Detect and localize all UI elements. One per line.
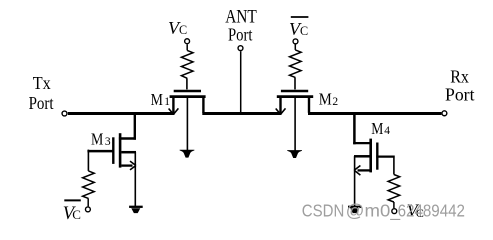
drain stub M3 (119, 137, 136, 139)
svg-text:Tx: Tx (33, 73, 51, 93)
wire M2 drain to Rx port (308, 112, 441, 115)
svg-text:C: C (300, 24, 308, 38)
label M4 (371, 119, 390, 138)
label M2 (319, 90, 339, 109)
label VC-bar (M2 gate bias, inverted control) (289, 17, 308, 39)
resistor (M2 gate bias) (290, 50, 302, 78)
wire resistor to VC terminal (393, 202, 395, 208)
svg-text:@m0: @m0 (346, 201, 391, 221)
wire M4 source to ground (354, 156, 356, 206)
label ANT Port (225, 6, 257, 44)
gate lead M3 (87, 150, 114, 153)
svg-text:CSDN: CSDN (302, 201, 345, 221)
drain leg M2 (308, 97, 310, 113)
source arrow M4 (354, 166, 360, 176)
resistor (M4 gate bias) (388, 175, 400, 203)
terminal VC-bar (bottom left) (85, 207, 90, 212)
body stub M3 (121, 151, 136, 154)
gate bar M1 (174, 90, 201, 93)
wire main line to M4 drain (353, 112, 356, 144)
svg-text:C: C (179, 23, 187, 37)
terminal VC (top left) (185, 39, 190, 44)
source stub M3 (121, 164, 132, 166)
svg-text:Port: Port (228, 25, 253, 45)
wire VC-bar terminal to resistor (294, 44, 296, 50)
svg-text:M: M (151, 90, 164, 109)
wire resistor to VC-bar terminal (87, 198, 89, 206)
body wire M2 (294, 98, 296, 151)
source stub M4 (358, 169, 371, 171)
transistor M2 (276, 91, 314, 151)
label VC (M4 gate bias) (407, 201, 424, 221)
transistor M1 (169, 91, 206, 150)
terminal Tx port (62, 111, 67, 116)
label VC-bar (M3 gate bias, inverted control) (63, 200, 81, 223)
source arrow M3 (130, 161, 136, 170)
svg-text:4: 4 (384, 125, 390, 137)
wire Tx port to M1 source (68, 112, 175, 115)
svg-text:Port: Port (29, 93, 54, 113)
drain stub M4 (353, 142, 371, 144)
resistor (M3 gate bias) (83, 171, 95, 199)
svg-text:2: 2 (332, 96, 338, 108)
ground (M3 source) (129, 207, 143, 213)
channel bar M4 (369, 139, 372, 173)
wire resistor to M2 gate (294, 77, 296, 89)
svg-text:1: 1 (164, 96, 170, 108)
label M3 (91, 129, 111, 148)
transistor M3 (87, 133, 136, 170)
svg-text:M: M (91, 129, 104, 148)
source arrow M1 (169, 108, 179, 114)
wire main line to M3 drain (134, 112, 136, 140)
source leg M1 (172, 97, 174, 113)
channel bar M1 (170, 95, 206, 98)
terminal VC-bar (top right) (293, 39, 298, 44)
ground (M4 source) (348, 207, 362, 213)
svg-text:C: C (72, 207, 81, 222)
wire M1 drain to M2 source (ANT node) (202, 112, 281, 115)
svg-text:3: 3 (105, 136, 111, 148)
source leg M2 (279, 97, 281, 113)
drain leg M1 (202, 97, 204, 113)
body wire M1 (186, 98, 188, 150)
ground (M2 body) (287, 150, 302, 158)
terminal ANT port (238, 46, 243, 51)
wire M4 gate to resistor (393, 156, 395, 175)
svg-text:M: M (319, 90, 332, 109)
wire M3 source to ground (134, 152, 136, 206)
label VC (M1 gate bias) (168, 18, 187, 38)
ground (M1 body) (180, 150, 195, 158)
wire resistor to M1 gate (186, 78, 188, 89)
channel bar M3 (119, 133, 122, 167)
svg-text:Port: Port (445, 84, 475, 104)
resistor (M1 gate bias) (181, 50, 193, 78)
label Tx Port (29, 73, 54, 113)
label Rx Port (445, 67, 475, 105)
body stub M4 (354, 155, 370, 158)
transistor M4 (353, 139, 394, 176)
label M1 (151, 90, 171, 109)
terminal Rx port (442, 111, 447, 116)
wire VC terminal to resistor (186, 44, 188, 50)
terminal VC (bottom right) (392, 209, 397, 214)
gate bar M2 (281, 90, 308, 93)
gate bar M4 (376, 143, 378, 170)
gate lead M4 (376, 155, 394, 157)
svg-text:62489442: 62489442 (398, 201, 465, 221)
wire M3 gate to resistor (87, 150, 89, 171)
source arrow M2 (276, 108, 286, 114)
wire ANT port to main line (240, 51, 242, 112)
gate bar M3 (112, 137, 114, 164)
channel bar M2 (277, 95, 313, 98)
svg-text:M: M (371, 119, 383, 138)
